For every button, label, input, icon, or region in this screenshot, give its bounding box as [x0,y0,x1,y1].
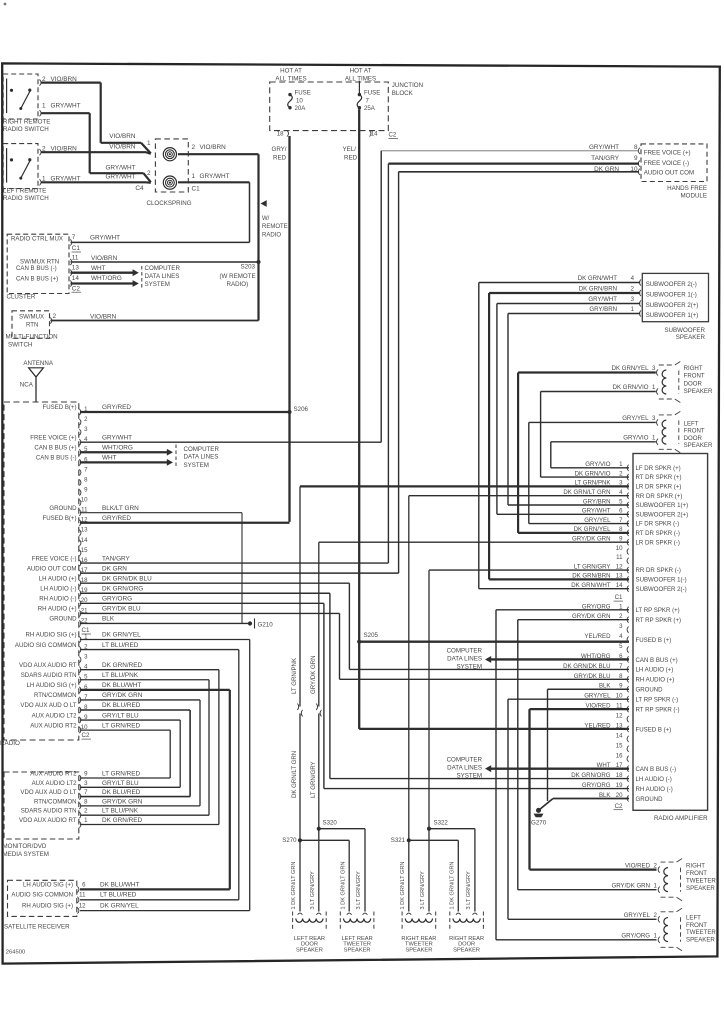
svg-text:WHT: WHT [102,455,117,462]
svg-text:SYSTEM: SYSTEM [184,462,209,469]
svg-text:SYSTEM: SYSTEM [457,773,482,780]
svg-text:BLK: BLK [102,616,115,623]
svg-text:S206: S206 [294,406,309,413]
svg-text:W/: W/ [262,216,270,222]
svg-text:GRY/WHT: GRY/WHT [589,144,619,151]
svg-text:SUBWOOFER: SUBWOOFER [664,327,705,334]
svg-text:SPEAKER: SPEAKER [344,947,371,953]
svg-text:LR DR SPKR (-): LR DR SPKR (-) [636,539,680,546]
svg-text:GRY/RED: GRY/RED [102,515,131,522]
svg-text:C1: C1 [192,186,201,193]
wire LT GRN/PNK amp C1 pin3 to left rear trunk [300,485,629,487]
wire GRY/VIO amp C1 pin1 to left front door pin1 [551,467,629,469]
svg-text:SW/MUX: SW/MUX [19,314,44,321]
svg-text:LT RP SPKR (+): LT RP SPKR (+) [636,607,680,614]
svg-text:DK GRN/DK BLU: DK GRN/DK BLU [563,663,610,670]
wire BLK amp C2 pin20 to ground G270 [553,797,629,799]
label W REMOTE RADIO with arrow [261,200,267,207]
svg-text:AUX AUDIO LT2: AUX AUDIO LT2 [32,712,78,719]
svg-text:C2: C2 [82,732,90,739]
svg-text:LEFT: LEFT [684,420,699,427]
monitor/DVD media system block [4,772,79,839]
svg-text:RT RP SPKR (-): RT RP SPKR (-) [636,706,680,713]
svg-text:DOOR: DOOR [684,380,703,387]
speaker coil [453,919,480,923]
svg-text:LF DR SPKR (+): LF DR SPKR (+) [636,465,681,472]
svg-text:WHT: WHT [91,265,106,272]
svg-text:15: 15 [81,547,88,554]
svg-text:14: 14 [371,131,378,138]
svg-text:COMPUTER: COMPUTER [145,265,181,272]
wire GRY/WHT left switch pin1 to clockspring [41,181,146,183]
svg-text:GROUND: GROUND [636,796,664,803]
svg-text:WHT/ORG: WHT/ORG [91,275,122,282]
svg-text:GRY/WHT: GRY/WHT [90,235,120,242]
svg-text:GRY/ORG: GRY/ORG [102,596,132,603]
svg-text:G210: G210 [258,621,274,628]
svg-text:12: 12 [616,713,623,720]
svg-text:NCA: NCA [20,382,34,389]
svg-text:RED: RED [273,155,287,162]
svg-text:SWITCH: SWITCH [8,342,32,349]
node S321 [407,838,411,842]
svg-text:SUBWOOFER 1(-): SUBWOOFER 1(-) [646,291,697,298]
svg-text:LT BLU/RED: LT BLU/RED [100,892,137,899]
svg-text:264500: 264500 [6,949,25,955]
svg-text:RIGHT REMOTE: RIGHT REMOTE [3,118,50,125]
svg-text:LT GRN/RED: LT GRN/RED [102,771,140,778]
svg-text:SPEAKER: SPEAKER [296,947,323,953]
svg-text:CAN B BUS (-): CAN B BUS (-) [36,455,77,462]
svg-text:18: 18 [277,131,284,138]
svg-text:ALL TIMES: ALL TIMES [345,75,376,82]
svg-text:RTN: RTN [26,322,38,329]
wire GRY/WHT clockspring pin1 to cluster pin7 [178,181,250,183]
wire WHT/ORG amp C2 pin6 to computer data lines [487,658,629,660]
svg-text:GROUND: GROUND [49,616,77,623]
wire DK GRN/YEL amp C1 pin8 to right front door pin3 [518,532,629,534]
multi-function switch block [12,311,50,339]
node S320 [317,827,321,831]
svg-text:VIO/BRN: VIO/BRN [200,144,227,151]
svg-text:FREE VOICE (-): FREE VOICE (-) [644,160,689,167]
svg-text:1: 1 [42,103,46,110]
svg-text:DATA LINES: DATA LINES [447,765,482,772]
speaker coil [296,919,323,923]
svg-text:LT GRN/GRY: LT GRN/GRY [574,563,611,570]
svg-text:LT BLU/RED: LT BLU/RED [102,642,139,649]
svg-text:GRY/VIO: GRY/VIO [623,434,649,441]
svg-text:2: 2 [147,170,151,177]
svg-text:2: 2 [53,313,57,320]
svg-text:GRY/WHT: GRY/WHT [588,296,617,303]
svg-text:GRY/WHT: GRY/WHT [105,174,135,181]
svg-text:LH AUDIO (-): LH AUDIO (-) [40,585,76,592]
monitor pin9 LT GRN/RED [79,775,81,781]
wire DK GRN/BRN amp C1 pin13 to subwoofer pin2 [489,578,629,580]
speaker coil [405,919,432,923]
svg-text:TAN/GRY: TAN/GRY [102,555,131,562]
wire BLK amp C2 pin9 to G270 [548,688,630,690]
svg-text:DK GRN/WHT: DK GRN/WHT [578,275,618,282]
svg-text:JUNCTION: JUNCTION [392,82,423,89]
svg-text:SUBWOOFER 1(-): SUBWOOFER 1(-) [636,577,687,584]
svg-text:LEFT: LEFT [686,914,701,921]
svg-text:14: 14 [616,582,623,589]
svg-text:(W REMOTE: (W REMOTE [220,273,256,280]
svg-text:LEFT REMOTE: LEFT REMOTE [3,188,46,195]
svg-text:RH AUDIO (+): RH AUDIO (+) [38,606,77,613]
svg-text:SYSTEM: SYSTEM [457,664,482,671]
svg-text:LH AUDIO (+): LH AUDIO (+) [636,667,674,674]
svg-text:GROUND: GROUND [636,687,664,694]
svg-text:LT BLU/PNK: LT BLU/PNK [102,672,139,679]
svg-text:SPEAKER: SPEAKER [405,947,432,953]
svg-text:COMPUTER: COMPUTER [447,648,483,655]
wire GRY/BRN amp C1 pin5 to subwoofer pin1 [508,504,629,506]
svg-text:2: 2 [192,144,196,151]
svg-text:DK GRN: DK GRN [102,565,127,572]
svg-text:S321: S321 [391,837,406,844]
svg-text:COMPUTER: COMPUTER [184,446,220,453]
fuse 10 20A [288,93,291,96]
svg-text:G270: G270 [531,819,547,826]
svg-text:FUSE: FUSE [295,90,311,97]
svg-text:GRY/DK GRN: GRY/DK GRN [310,656,317,695]
wire VIO/BRN left switch pin2 to clockspring [41,151,146,153]
svg-text:FUSED B (+): FUSED B (+) [636,726,672,733]
svg-text:CAN B BUS (+): CAN B BUS (+) [16,275,58,282]
svg-text:LH AUDIO SIG (+): LH AUDIO SIG (+) [27,682,77,689]
left front door speaker [529,421,656,423]
junction block [270,82,389,131]
svg-text:AUX AUDIO RT2: AUX AUDIO RT2 [30,771,77,778]
svg-text:LT GRN/GRY: LT GRN/GRY [310,761,317,798]
svg-text:VIO/RED: VIO/RED [625,863,651,870]
svg-text:VDO AUX AUD O LT: VDO AUX AUD O LT [20,702,76,709]
svg-text:DK GRN/ORG: DK GRN/ORG [571,772,611,779]
svg-text:BLOCK: BLOCK [392,90,414,97]
radio block [4,402,79,740]
satellite pin11 LT BLU/RED [77,897,79,903]
svg-text:11: 11 [72,254,79,261]
svg-text:GRY/DK GRN: GRY/DK GRN [572,536,611,543]
wire GRY/YEL amp C2 pin10 to left front tweeter pin2 [508,698,629,700]
svg-text:GRY/WHT: GRY/WHT [102,434,132,441]
svg-text:DOOR: DOOR [684,435,703,442]
svg-text:10: 10 [616,545,623,552]
svg-text:VDO AUX AUDIO RT: VDO AUX AUDIO RT [19,662,77,669]
svg-text:SUBWOOFER 2(-): SUBWOOFER 2(-) [636,586,687,593]
svg-text:11: 11 [79,892,86,899]
svg-text:RTN/COMMON: RTN/COMMON [34,692,77,699]
svg-text:SYSTEM: SYSTEM [145,281,170,288]
svg-text:LT GRN/PNK: LT GRN/PNK [291,658,298,694]
svg-text:RADIO): RADIO) [227,281,249,288]
svg-text:GRY/YEL: GRY/YEL [622,415,649,422]
node G210 [248,621,252,625]
svg-text:SUBWOOFER 1(+): SUBWOOFER 1(+) [636,502,689,509]
svg-text:DK GRN/RED: DK GRN/RED [102,817,143,824]
svg-text:1: 1 [192,173,196,180]
svg-text:YEL/RED: YEL/RED [584,722,611,729]
svg-text:1 DK GRN/LT GRN: 1 DK GRN/LT GRN [291,862,297,910]
monitor pin2 LT BLU/PNK [79,812,81,818]
svg-text:FRONT: FRONT [684,428,705,435]
wire LT GRN/GRY amp C1 pin12 to right rear trunk [429,569,629,571]
svg-text:DATA LINES: DATA LINES [145,273,180,280]
svg-text:RADIO SWITCH: RADIO SWITCH [3,126,49,133]
svg-text:FRONT: FRONT [686,922,707,929]
svg-text:DATA LINES: DATA LINES [447,656,482,663]
svg-text:RR DR SPKR (+): RR DR SPKR (+) [636,493,683,500]
wire WHT amp C2 pin17 to computer data lines [487,768,629,770]
svg-text:WHT/ORG: WHT/ORG [102,444,133,451]
svg-text:14: 14 [72,275,80,282]
svg-text:RH AUDIO SIG (+): RH AUDIO SIG (+) [26,632,77,639]
svg-text:GRY/DK BLU: GRY/DK BLU [102,606,141,613]
wire DK GRN/WHT amp C1 pin14 to subwoofer pin4 [479,588,629,590]
svg-text:DK BLU/RED: DK BLU/RED [102,789,141,796]
svg-text:RADIO CTRL MUX: RADIO CTRL MUX [11,236,63,243]
svg-text:RADIO AMPLIFIER: RADIO AMPLIFIER [654,815,708,822]
svg-text:GROUND: GROUND [49,505,77,512]
svg-text:YEL/: YEL/ [343,146,357,153]
wire WHT/ORG cluster pin14 to computer data lines arrow [71,282,134,284]
svg-text:GRY/WHT: GRY/WHT [200,173,230,180]
wire GRY/WHT right switch pin1 to clockspring [41,112,90,114]
wire VIO/BRN clockspring pin2 to S203 [178,153,259,155]
svg-text:DK GRN/ORG: DK GRN/ORG [102,585,143,592]
ground G270 [536,808,541,813]
node S206 [287,410,291,414]
svg-text:3 LT GRN/GRY: 3 LT GRN/GRY [356,871,362,910]
svg-text:C2: C2 [615,803,623,810]
monitor pin7 DK BLU/RED [79,794,81,800]
wire GRY/DK GRN amp C2 pin2 to right front tweeter pin1 [518,619,629,621]
svg-text:SATELLITE RECEIVER: SATELLITE RECEIVER [4,924,70,931]
svg-text:15: 15 [616,742,623,749]
svg-text:SUBWOOFER 2(-): SUBWOOFER 2(-) [646,281,697,288]
svg-text:VIO/BRN: VIO/BRN [91,255,118,262]
svg-text:GRY/WHT: GRY/WHT [105,165,135,172]
svg-text:MODULE: MODULE [681,192,707,199]
svg-text:S205: S205 [364,632,379,639]
svg-text:DK GRN/VIO: DK GRN/VIO [613,384,649,391]
svg-text:C4: C4 [135,185,144,192]
svg-text:AUX AUDIO LT2: AUX AUDIO LT2 [32,780,78,787]
svg-text:LH AUDIO (-): LH AUDIO (-) [636,776,672,783]
svg-text:FRONT: FRONT [686,870,707,877]
svg-text:FRONT: FRONT [684,373,705,380]
wire VIO/BRN right switch pin2 to clockspring [41,81,101,83]
svg-text:SDARS AUDIO RTN: SDARS AUDIO RTN [21,808,77,815]
svg-text:RT DR SPKR (-): RT DR SPKR (-) [636,530,680,537]
svg-text:MONITOR/DVD: MONITOR/DVD [3,843,47,850]
svg-text:13: 13 [81,527,88,534]
svg-text:RADIO: RADIO [262,232,281,238]
svg-text:RTN/COMMON: RTN/COMMON [34,798,77,805]
svg-text:DK GRN/BRN: DK GRN/BRN [579,286,617,293]
svg-text:AUDIO SIG COMMON: AUDIO SIG COMMON [15,642,77,649]
svg-text:GRY/RED: GRY/RED [102,404,131,411]
svg-text:VIO/BRN: VIO/BRN [109,144,136,151]
svg-text:19: 19 [616,782,623,789]
node S322 [427,827,431,831]
svg-text:LH AUDIO (+): LH AUDIO (+) [39,575,77,582]
svg-text:GRY/VIO: GRY/VIO [585,461,611,468]
svg-text:11: 11 [616,554,623,561]
computer data lines system block (radio) [175,445,177,469]
wire GRY/WHT amp C1 pin6 to subwoofer pin3 [497,513,629,515]
monitor pin3 GRY/LT BLU [79,784,81,790]
svg-text:13: 13 [72,265,80,272]
svg-text:YEL/RED: YEL/RED [584,633,611,640]
svg-text:12: 12 [616,563,623,570]
svg-text:1 DK GRN/LT GRN: 1 DK GRN/LT GRN [400,862,406,910]
wire DK GRN/VIO amp C1 pin2 to right front door pin1 [541,476,629,478]
svg-text:FUSED B (+): FUSED B (+) [636,637,672,644]
wires into subwoofer [479,282,640,284]
svg-text:CAN B BUS (+): CAN B BUS (+) [34,444,76,451]
svg-text:C1: C1 [615,594,623,601]
node S203 splice [256,260,260,264]
right remote radio switch [3,74,38,119]
wire DK GRN/LT GRN amp C1 pin4 to right rear trunk [409,495,629,497]
svg-text:8: 8 [634,144,638,151]
wire GRY/RED from fuse 10 down to S206 and radio pin12 [288,136,290,522]
wire GRY/ORG amp C2 pin1 to left front tweeter pin1 [496,609,629,611]
svg-text:VIO/BRN: VIO/BRN [109,133,136,140]
hands free module block [641,144,707,182]
RIGHT REAR TWEETER speaker wires [408,840,410,911]
wire VIO/RED amp C2 pin11 to right front tweeter pin2 [530,708,630,710]
svg-text:GRY/WHT: GRY/WHT [51,103,81,110]
wire GRY/WHT hands free pin8 to radio pin4 [381,150,639,152]
svg-text:CAN B BUS (+): CAN B BUS (+) [636,657,678,664]
svg-text:DK GRN/YEL: DK GRN/YEL [102,632,141,639]
RIGHT REAR DOOR speaker wires [457,840,459,911]
svg-text:DK BLU/WHT: DK BLU/WHT [100,881,140,888]
svg-text:CLOCKSPRING: CLOCKSPRING [147,200,192,207]
svg-text:AUX AUDIO RT2: AUX AUDIO RT2 [30,722,77,729]
svg-text:ALL TIMES: ALL TIMES [275,75,306,82]
svg-text:CAN B BUS (-): CAN B BUS (-) [16,265,57,272]
svg-text:SUBWOOFER 1(+): SUBWOOFER 1(+) [646,312,699,319]
svg-text:GRY/WHT: GRY/WHT [582,508,611,515]
svg-text:RIGHT: RIGHT [686,863,705,870]
monitor pin8 GRY/DK GRN [79,803,81,809]
svg-text:DK GRN/DK BLU: DK GRN/DK BLU [102,575,152,582]
svg-text:RR DR SPKR (-): RR DR SPKR (-) [636,567,681,574]
svg-text:CAN B BUS (-): CAN B BUS (-) [636,766,677,773]
node S205 splice YEL/RED [357,640,361,644]
svg-text:1 DK GRN/LT GRN: 1 DK GRN/LT GRN [450,862,456,910]
svg-text:VIO/BRN: VIO/BRN [90,313,117,320]
svg-text:GRY/BRN: GRY/BRN [583,498,611,505]
satellite pin12 DK GRN/YEL [77,908,79,914]
svg-text:DK GRN/LT GRN: DK GRN/LT GRN [291,751,298,798]
svg-text:LT GRN/RED: LT GRN/RED [102,722,140,729]
svg-text:SPEAKER: SPEAKER [453,947,480,953]
svg-text:S322: S322 [434,820,449,827]
svg-text:3 LT GRN/GRY: 3 LT GRN/GRY [310,871,316,910]
svg-text:12: 12 [79,903,86,910]
wire YEL/RED S205 to amp pin4 [359,641,629,643]
svg-text:SUBWOOFER 2(+): SUBWOOFER 2(+) [636,511,689,518]
svg-text:AUDIO SIG COMMON: AUDIO SIG COMMON [11,892,73,899]
svg-text:TWEETER: TWEETER [686,878,716,885]
subwoofer speaker block [642,273,708,321]
svg-text:C2: C2 [72,285,81,292]
svg-text:S320: S320 [323,820,338,827]
svg-text:DK BLU/WHT: DK BLU/WHT [102,682,142,689]
svg-text:GRY/DK GRN: GRY/DK GRN [102,692,143,699]
wire VIO/BRN cluster pin11 to S203 [71,261,259,263]
svg-text:S270: S270 [282,837,297,844]
svg-text:LT RP SPKR (-): LT RP SPKR (-) [636,696,679,703]
wire GRY/DK GRN amp C1 pin9 to left rear trunk [319,541,629,543]
svg-text:9: 9 [634,155,638,162]
svg-text:1: 1 [147,140,151,147]
radio amplifier box [633,454,708,811]
svg-text:ANTENNA: ANTENNA [23,360,53,367]
wire YEL/RED to amp pin13 [359,728,629,730]
svg-text:16: 16 [616,752,623,759]
svg-text:DATA LINES: DATA LINES [184,454,219,461]
svg-text:COMPUTER: COMPUTER [447,757,483,764]
svg-text:GRY/DK GRN: GRY/DK GRN [612,883,651,890]
fuse 7 25A [358,81,360,95]
svg-text:GRY/BRN: GRY/BRN [589,306,617,313]
svg-text:REMOTE: REMOTE [262,224,288,230]
svg-text:13: 13 [616,722,623,729]
svg-text:GRY/ORG: GRY/ORG [621,933,650,940]
wire GRY/YEL amp C1 pin7 to left front door pin3 [529,523,629,525]
wire VIO/BRN multi-function switch pin2 [51,320,259,322]
svg-text:FUSED B(+): FUSED B(+) [42,515,76,522]
speaker coil [344,919,371,923]
right front tweeter speaker [664,868,668,892]
node S270 [298,838,302,842]
svg-text:HANDS FREE: HANDS FREE [667,185,707,192]
svg-text:LR DR SPKR (+): LR DR SPKR (+) [636,484,682,491]
svg-text:LT GRN/PNK: LT GRN/PNK [574,480,610,487]
svg-text:HOT AT: HOT AT [280,68,302,75]
monitor pin1 DK GRN/RED [79,821,81,827]
svg-text:VDO AUX AUD O LT: VDO AUX AUD O LT [20,789,76,796]
satellite pin6 DK BLU/WHT [77,886,79,892]
svg-text:DK BLU/RED: DK BLU/RED [102,702,141,709]
svg-text:DK GRN/RED: DK GRN/RED [102,662,143,669]
svg-text:RIGHT: RIGHT [684,365,703,372]
svg-text:C1: C1 [72,245,81,252]
svg-text:20A: 20A [295,105,307,112]
svg-text:S203: S203 [241,263,256,270]
svg-text:DK GRN/WHT: DK GRN/WHT [571,582,611,589]
svg-text:HOT AT: HOT AT [350,68,372,75]
svg-text:RH AUDIO (-): RH AUDIO (-) [39,596,76,603]
wire YEL/RED from fuse 7 down to S205 and amp [358,109,360,729]
svg-text:1 DK GRN/LT GRN: 1 DK GRN/LT GRN [340,862,346,910]
svg-text:SUBWOOFER 2(+): SUBWOOFER 2(+) [646,302,699,309]
svg-text:AUDIO OUT COM: AUDIO OUT COM [27,565,77,572]
svg-text:GRY/YEL: GRY/YEL [624,912,651,919]
svg-text:GRY/YEL: GRY/YEL [584,517,611,524]
svg-text:RADIO SWITCH: RADIO SWITCH [3,195,49,202]
svg-text:MULTI-FUNCTION: MULTI-FUNCTION [6,333,58,340]
svg-text:SPEAKER: SPEAKER [684,442,713,449]
